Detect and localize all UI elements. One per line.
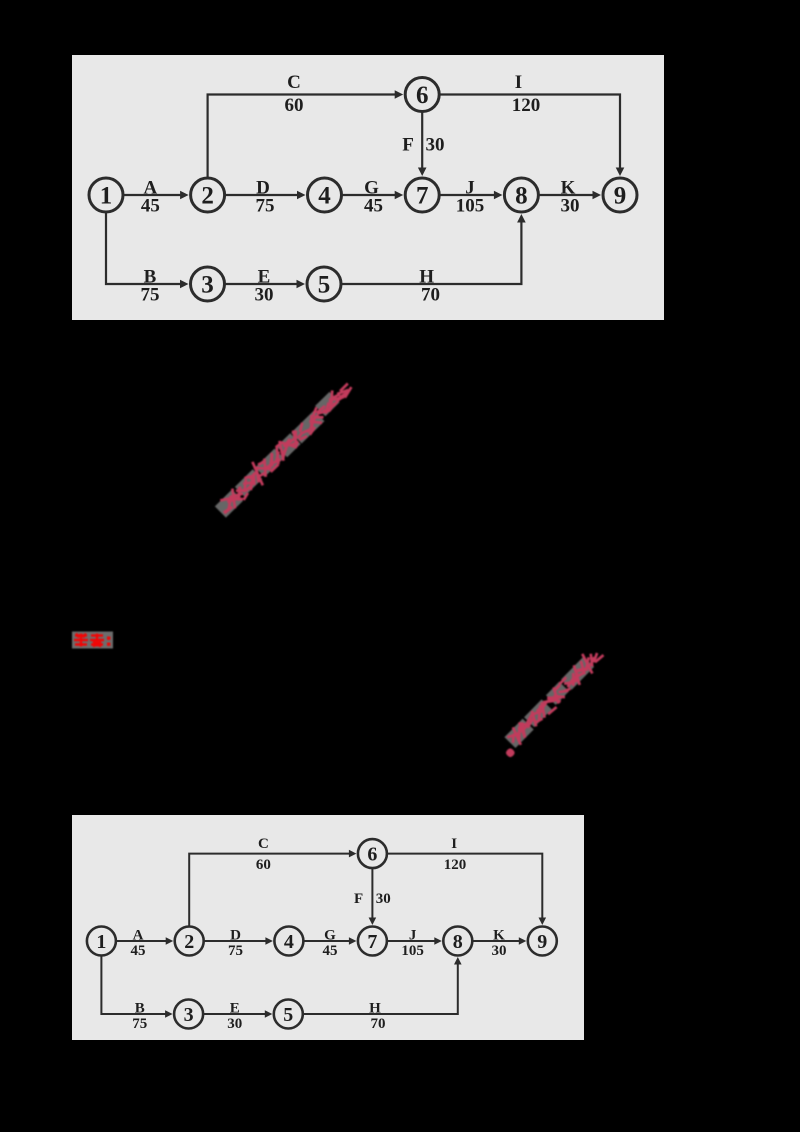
wire D 2-4 <box>225 194 299 196</box>
arrowhead K <box>593 191 602 200</box>
svg-text:2: 2 <box>201 183 214 210</box>
svg-text:1: 1 <box>100 183 113 210</box>
wire B 1-3 <box>101 956 167 1015</box>
wire K 8-9 <box>472 940 521 942</box>
svg-text:J: J <box>409 928 417 944</box>
svg-text:75: 75 <box>228 943 243 959</box>
arrowhead I <box>539 918 547 926</box>
wire H 5-8 <box>303 962 458 1014</box>
wire J 7-8 <box>440 194 496 196</box>
arrowhead C <box>395 90 404 99</box>
node 4 <box>308 178 342 212</box>
svg-text:8: 8 <box>453 931 463 953</box>
svg-text:105: 105 <box>401 943 424 959</box>
node 1 <box>89 178 123 212</box>
arrowhead J <box>434 937 442 945</box>
wire G 4-7 <box>342 194 397 196</box>
wire H 5-8 <box>341 220 521 284</box>
arrowhead K <box>519 937 527 945</box>
svg-text:30: 30 <box>255 285 274 306</box>
svg-text:60: 60 <box>256 857 271 873</box>
wire G 4-7 <box>303 940 351 942</box>
node 7 <box>358 927 387 956</box>
svg-text:120: 120 <box>512 95 541 116</box>
svg-text:30: 30 <box>376 891 391 907</box>
svg-text:30: 30 <box>492 943 507 959</box>
svg-text:H: H <box>369 1001 381 1017</box>
svg-text:3: 3 <box>201 272 214 299</box>
wire A 1-2 <box>116 940 167 942</box>
svg-text:75: 75 <box>132 1016 147 1032</box>
svg-text:I: I <box>451 836 457 852</box>
svg-text:105: 105 <box>456 196 485 217</box>
arrowhead E <box>297 280 306 289</box>
svg-text:9: 9 <box>614 183 627 210</box>
svg-text:45: 45 <box>131 943 146 959</box>
node 6 <box>405 78 439 112</box>
watermark 1 (rotated red scribble on gray band) <box>195 375 390 535</box>
node 9 <box>528 927 557 956</box>
svg-text:30: 30 <box>426 135 445 156</box>
svg-text:30: 30 <box>561 196 580 217</box>
node 3 <box>191 267 225 301</box>
wire C 2-6 <box>208 95 397 179</box>
wire F 6-7 <box>421 112 423 170</box>
arrowhead H <box>517 214 526 223</box>
node 8 <box>443 927 472 956</box>
node 6 <box>358 839 387 868</box>
svg-text:3: 3 <box>184 1004 194 1026</box>
arrowhead B <box>165 1010 173 1018</box>
arrowhead D <box>265 937 273 945</box>
arrowhead D <box>297 191 306 200</box>
node 7 <box>405 178 439 212</box>
svg-text:8: 8 <box>515 183 528 210</box>
arrowhead F <box>369 918 377 926</box>
svg-text:1: 1 <box>96 931 106 953</box>
wire A 1-2 <box>123 194 182 196</box>
svg-text:70: 70 <box>371 1016 386 1032</box>
svg-text:120: 120 <box>444 857 467 873</box>
arrowhead A <box>166 937 174 945</box>
svg-text:7: 7 <box>367 931 377 953</box>
svg-text:D: D <box>230 928 241 944</box>
node 1 <box>87 927 116 956</box>
svg-text:E: E <box>230 1001 240 1017</box>
bottom diagram panel <box>72 815 584 1040</box>
svg-text:K: K <box>493 928 505 944</box>
arrowhead A <box>180 191 189 200</box>
svg-text:60: 60 <box>285 95 304 116</box>
svg-text:G: G <box>324 928 336 944</box>
wire E 3-5 <box>204 1013 268 1015</box>
arrowhead E <box>265 1010 273 1018</box>
node 5 <box>274 1000 303 1029</box>
wire C 2-6 <box>189 854 351 927</box>
svg-text:5: 5 <box>283 1004 293 1026</box>
wire I 6-9 <box>387 854 542 920</box>
wire K 8-9 <box>539 194 595 196</box>
node 9 <box>603 178 637 212</box>
svg-text:F: F <box>402 135 414 156</box>
answer stamp (red glyphs on gray box) <box>70 629 120 653</box>
arrowhead H <box>454 957 462 965</box>
arrowhead I <box>616 168 625 177</box>
svg-text:75: 75 <box>141 285 160 306</box>
svg-text:9: 9 <box>537 931 547 953</box>
svg-text:5: 5 <box>318 272 331 299</box>
svg-text:B: B <box>135 1001 145 1017</box>
node 2 <box>175 927 204 956</box>
top diagram panel <box>72 55 664 320</box>
svg-text:45: 45 <box>323 943 338 959</box>
node 8 <box>504 178 538 212</box>
svg-text:75: 75 <box>256 196 275 217</box>
svg-text:6: 6 <box>416 82 429 109</box>
node 4 <box>274 927 303 956</box>
svg-text:C: C <box>287 72 301 93</box>
arrowhead C <box>349 850 357 858</box>
node 2 <box>191 178 225 212</box>
svg-text:I: I <box>515 72 522 93</box>
svg-text:7: 7 <box>416 183 429 210</box>
svg-text:6: 6 <box>367 844 377 866</box>
arrowhead J <box>494 191 503 200</box>
svg-text:30: 30 <box>227 1016 242 1032</box>
node 3 <box>174 1000 203 1029</box>
svg-text:C: C <box>258 836 269 852</box>
watermark 2 (rotated red scribble on gray band) <box>480 635 645 775</box>
svg-text:F: F <box>354 891 363 907</box>
node 5 <box>307 267 341 301</box>
arrowhead F <box>418 168 427 177</box>
svg-text:2: 2 <box>184 931 194 953</box>
arrowhead G <box>395 191 404 200</box>
arrowhead B <box>180 280 189 289</box>
wire D 2-4 <box>204 940 267 942</box>
svg-text:45: 45 <box>364 196 383 217</box>
wire E 3-5 <box>225 283 299 285</box>
arrowhead G <box>349 937 357 945</box>
svg-text:4: 4 <box>318 183 331 210</box>
wire I 6-9 <box>440 95 621 171</box>
svg-text:4: 4 <box>284 931 294 953</box>
wire B 1-3 <box>106 212 182 284</box>
wire J 7-8 <box>387 940 436 942</box>
svg-text:70: 70 <box>421 285 440 306</box>
wire F 6-7 <box>371 868 373 920</box>
svg-text:45: 45 <box>141 196 160 217</box>
svg-text:A: A <box>133 928 144 944</box>
